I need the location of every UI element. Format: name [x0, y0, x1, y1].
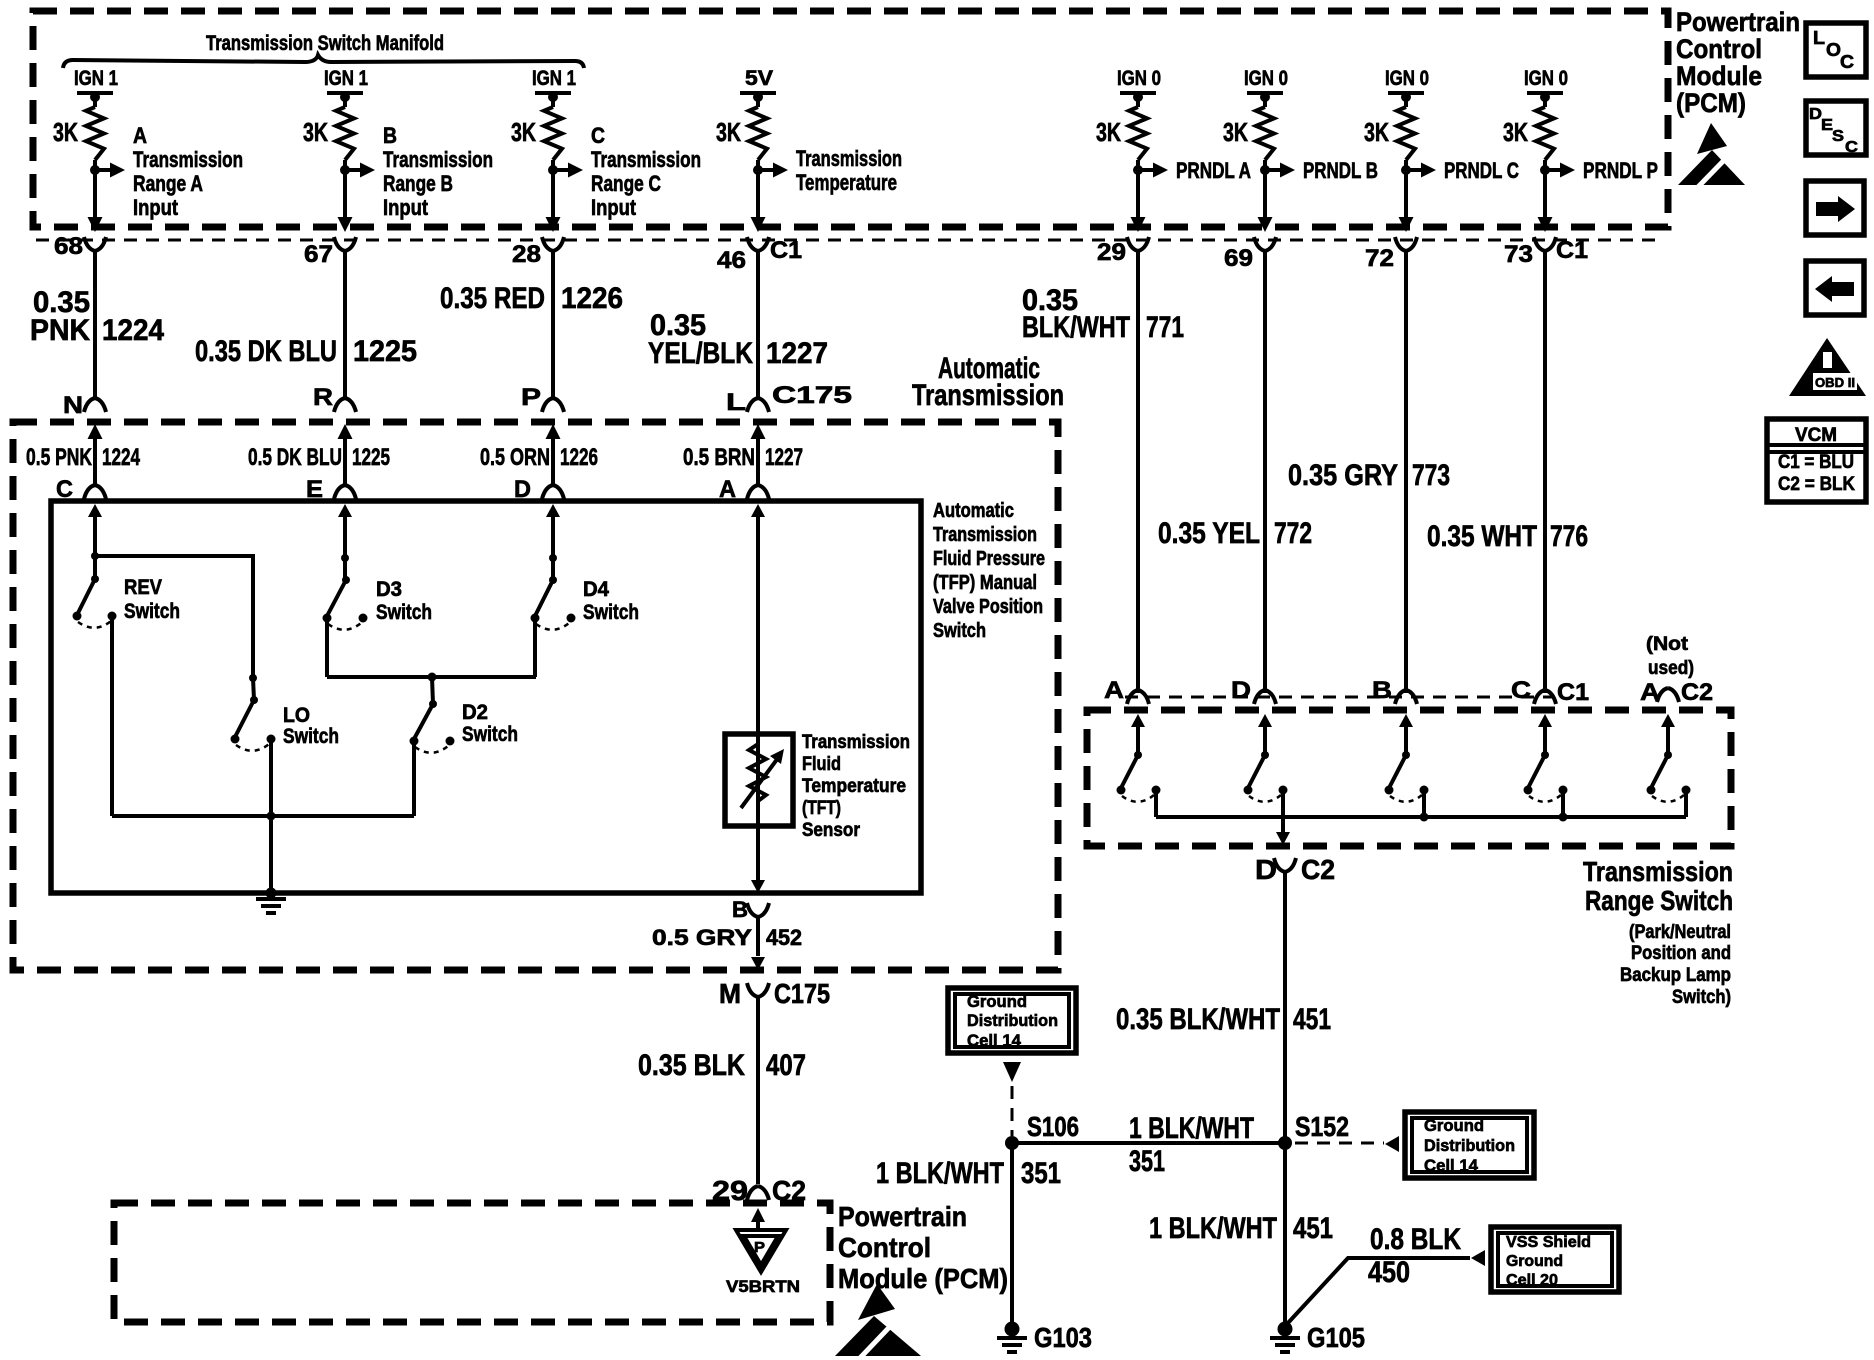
svg-text:Switch: Switch — [462, 723, 518, 746]
svg-text:3K: 3K — [1364, 117, 1389, 147]
Powertrain Control Module (PCM) top dashed box — [33, 11, 1668, 227]
svg-text:Automatic: Automatic — [933, 500, 1014, 522]
svg-text:72: 72 — [1365, 245, 1394, 272]
svg-text:3K: 3K — [1223, 117, 1248, 147]
pin 68 connector fork — [54, 233, 106, 260]
svg-text:P: P — [754, 1239, 765, 1256]
Powertrain Control Module (PCM) bottom dashed box — [114, 1203, 830, 1322]
svg-text:C: C — [1845, 139, 1858, 156]
resistor 3K, column 7 — [1364, 97, 1415, 160]
svg-text:PRNDL A: PRNDL A — [1176, 158, 1251, 183]
TFT sensor label — [802, 732, 910, 841]
range switch contact 5 — [1647, 714, 1691, 817]
svg-text:69: 69 — [1224, 245, 1253, 272]
svg-text:C175: C175 — [772, 382, 852, 409]
pin 28 connector fork — [512, 237, 564, 268]
svg-text:Input: Input — [383, 195, 429, 220]
splice S152 — [1278, 1111, 1349, 1150]
svg-text:1 BLK/WHT: 1 BLK/WHT — [1129, 1112, 1254, 1145]
svg-text:1224: 1224 — [102, 444, 140, 471]
Ground Distribution Cell 14 box (upper) — [948, 988, 1076, 1053]
node IGN 0 feed, column 5 — [1117, 67, 1161, 102]
range switch contact 1 — [1117, 714, 1161, 817]
svg-text:Switch): Switch) — [1672, 987, 1731, 1008]
svg-text:Cell 14: Cell 14 — [1424, 1156, 1479, 1175]
wire REV common to lower bus — [110, 616, 114, 816]
svg-text:Ground: Ground — [1424, 1116, 1484, 1135]
pin A C2 (Not used) — [1640, 634, 1713, 706]
svg-text:Range B: Range B — [383, 171, 453, 196]
wire 0.35 WHT 776 — [1427, 250, 1588, 693]
svg-text:IGN 1: IGN 1 — [324, 67, 368, 90]
signal name text, column 8 — [1583, 158, 1658, 183]
wire D contact down to connector — [1276, 790, 1290, 845]
PCM bottom label — [838, 1201, 1008, 1294]
wire D2 common down to lower bus — [412, 741, 416, 816]
svg-text:3K: 3K — [1503, 117, 1528, 147]
Automatic Transmission label — [912, 352, 1064, 412]
svg-text:A: A — [133, 123, 147, 148]
node IGN 1 feed, column 2 — [324, 67, 368, 102]
connector C175 pin R — [313, 384, 356, 412]
wire from pin C to REV switch — [88, 504, 102, 579]
connector C175 pin N — [63, 392, 106, 419]
resistor 3K, column 2 — [303, 97, 354, 160]
range switch connector line — [1125, 696, 1553, 699]
svg-text:IGN 1: IGN 1 — [74, 67, 118, 90]
svg-text:1225: 1225 — [353, 335, 417, 368]
D3 Switch — [323, 576, 433, 630]
wire 0.35 DK BLU 1225 — [195, 250, 417, 400]
svg-text:Cell 14: Cell 14 — [967, 1031, 1022, 1050]
svg-text:Temperature: Temperature — [802, 776, 906, 797]
svg-text:Input: Input — [591, 195, 637, 220]
wire 0.5 PNK 1224 into TFP pin C — [26, 424, 140, 503]
svg-text:351: 351 — [1129, 1145, 1165, 1178]
svg-text:B: B — [732, 897, 748, 922]
svg-text:5V: 5V — [745, 67, 773, 90]
TFT sensor box — [725, 734, 793, 826]
svg-text:Transmission Switch Manifold: Transmission Switch Manifold — [206, 32, 444, 55]
dashed wire S152 to ground distribution (right) — [1295, 1136, 1399, 1152]
svg-text:L: L — [1813, 28, 1825, 48]
svg-text:VSS Shield: VSS Shield — [1506, 1234, 1591, 1251]
svg-text:(Not: (Not — [1646, 634, 1689, 655]
connector 29 C2 to PCM — [712, 1175, 806, 1206]
svg-text:B: B — [383, 123, 397, 148]
svg-text:1225: 1225 — [352, 444, 390, 471]
wire from pin E to D3 switch — [338, 504, 352, 580]
svg-text:C1: C1 — [1557, 679, 1589, 706]
svg-text:Control: Control — [838, 1232, 931, 1263]
DESC icon box — [1806, 101, 1866, 156]
svg-text:28: 28 — [512, 241, 541, 268]
left arrow icon box — [1806, 261, 1864, 315]
svg-text:0.5 BRN: 0.5 BRN — [683, 444, 755, 471]
wire 0.35 BLK/WHT 451 — [1116, 1003, 1331, 1036]
wire 0.5 DK BLU 1225 into TFP pin E — [248, 424, 390, 503]
wire 0.35 BLK 407 — [638, 1049, 806, 1082]
svg-text:C175: C175 — [774, 978, 830, 1009]
wire LO common down to case ground — [269, 739, 273, 893]
svg-text:YEL/BLK: YEL/BLK — [648, 337, 753, 370]
svg-text:LO: LO — [283, 704, 310, 727]
range switch contact 2 — [1244, 714, 1288, 817]
wire 0.5 ORN 1226 into TFP pin D — [480, 424, 598, 503]
svg-text:772: 772 — [1274, 517, 1312, 550]
svg-text:C2: C2 — [1681, 679, 1713, 706]
svg-text:IGN 0: IGN 0 — [1385, 67, 1429, 90]
svg-text:C1 = BLU: C1 = BLU — [1778, 452, 1854, 473]
pin 67 connector fork — [304, 237, 356, 268]
svg-text:407: 407 — [766, 1049, 806, 1082]
svg-text:IGN 0: IGN 0 — [1244, 67, 1288, 90]
svg-text:(TFT): (TFT) — [802, 798, 841, 819]
range switch common bus — [1156, 813, 1686, 822]
svg-text:Powertrain: Powertrain — [1676, 7, 1800, 37]
range switch pin C — [1511, 677, 1556, 704]
svg-text:Fluid Pressure: Fluid Pressure — [933, 548, 1045, 570]
REV Switch — [73, 575, 181, 628]
svg-text:D2: D2 — [462, 701, 488, 724]
VSS Shield Ground Cell 20 box — [1491, 1227, 1619, 1292]
signal name text, column 1 — [133, 123, 243, 220]
svg-text:G105: G105 — [1307, 1322, 1365, 1353]
connector D C2 — [1255, 854, 1335, 1143]
svg-text:Range Switch: Range Switch — [1585, 885, 1733, 916]
Transmission Range Switch dashed box — [1087, 710, 1731, 846]
svg-text:Sensor: Sensor — [802, 820, 861, 841]
svg-text:N: N — [63, 392, 83, 419]
svg-text:452: 452 — [766, 925, 802, 950]
wire 0.35 GRY 773 — [1288, 250, 1450, 693]
junction dot on lower bus — [267, 812, 276, 821]
svg-text:3K: 3K — [716, 117, 741, 147]
svg-text:BLK/WHT: BLK/WHT — [1022, 311, 1130, 344]
wire 0.5 GRY 452 — [652, 925, 802, 970]
svg-text:Switch: Switch — [124, 600, 180, 623]
svg-text:Cell 20: Cell 20 — [1506, 1272, 1558, 1289]
svg-text:Switch: Switch — [933, 620, 986, 642]
pin 69 connector fork — [1224, 237, 1276, 272]
pin 46 connector fork — [717, 237, 769, 274]
svg-text:351: 351 — [1021, 1157, 1061, 1190]
svg-text:Temperature: Temperature — [796, 170, 897, 195]
svg-text:Control: Control — [1676, 34, 1762, 64]
range switch pin A — [1104, 677, 1149, 704]
svg-text:C1: C1 — [770, 237, 802, 264]
wire and junction with signal tap, column 6 — [1258, 160, 1296, 232]
svg-text:Switch: Switch — [583, 601, 639, 624]
svg-text:C2 = BLK: C2 = BLK — [1778, 474, 1855, 495]
D4 Switch — [531, 576, 640, 630]
svg-text:3K: 3K — [303, 117, 328, 147]
svg-text:(Park/Neutral: (Park/Neutral — [1629, 922, 1731, 943]
svg-text:S152: S152 — [1295, 1111, 1349, 1142]
svg-text:0.35 BLK/WHT: 0.35 BLK/WHT — [1116, 1003, 1280, 1036]
wire 0.35 PNK 1224 — [30, 250, 164, 400]
svg-text:1227: 1227 — [765, 444, 803, 471]
svg-text:IGN 0: IGN 0 — [1524, 67, 1568, 90]
svg-text:Valve Position: Valve Position — [933, 596, 1043, 618]
wire from pin A through TFT sensor — [751, 504, 765, 893]
splice S106 — [1005, 1111, 1079, 1150]
signal name text, column 4 — [796, 146, 902, 195]
svg-text:OBD II: OBD II — [1815, 375, 1855, 390]
svg-text:C2: C2 — [1301, 854, 1335, 885]
node 5V feed, column 4 — [740, 67, 776, 102]
ground G105 — [1270, 1322, 1365, 1354]
svg-text:3K: 3K — [53, 117, 78, 147]
svg-text:1 BLK/WHT: 1 BLK/WHT — [876, 1157, 1004, 1190]
svg-text:PRNDL P: PRNDL P — [1583, 158, 1658, 183]
range switch pin B — [1372, 677, 1417, 704]
VCM connector legend box — [1767, 419, 1866, 502]
range switch contact 4 — [1524, 714, 1568, 817]
wire 1 BLK/WHT 351 (S106 to G103) — [876, 1143, 1061, 1329]
svg-text:Powertrain: Powertrain — [838, 1201, 967, 1232]
Ground Distribution Cell 14 box (right) — [1405, 1112, 1534, 1178]
range switch contact 3 — [1385, 714, 1429, 817]
svg-text:Transmission: Transmission — [383, 147, 493, 172]
svg-text:Transmission: Transmission — [1583, 856, 1733, 887]
svg-text:Fluid: Fluid — [802, 754, 841, 775]
resistor 3K, column 1 — [53, 97, 104, 160]
resistor 3K, column 6 — [1223, 97, 1274, 160]
svg-text:1224: 1224 — [102, 314, 164, 347]
signal name text, column 7 — [1444, 158, 1519, 183]
svg-text:(PCM): (PCM) — [1676, 88, 1746, 118]
wire and junction with signal tap, column 3 — [546, 160, 584, 232]
svg-text:0.5 PNK: 0.5 PNK — [26, 444, 92, 471]
wire and junction with signal tap, column 4 — [751, 160, 789, 232]
wire D3 common to D2 feed bus — [325, 618, 329, 677]
svg-text:Transmission: Transmission — [591, 147, 701, 172]
svg-text:Input: Input — [133, 195, 179, 220]
svg-text:C1: C1 — [1556, 237, 1588, 264]
svg-text:Transmission: Transmission — [933, 524, 1037, 546]
node IGN 0 feed, column 7 — [1385, 67, 1429, 102]
wire and junction with signal tap, column 8 — [1538, 160, 1576, 232]
resistor 3K, column 5 — [1096, 97, 1147, 160]
svg-text:S: S — [1832, 128, 1844, 145]
svg-text:0.35 YEL: 0.35 YEL — [1158, 517, 1260, 550]
svg-text:Distribution: Distribution — [1424, 1136, 1515, 1155]
svg-text:G103: G103 — [1034, 1322, 1092, 1353]
svg-text:Transmission: Transmission — [133, 147, 243, 172]
wire 0.35 YEL/BLK 1227 — [648, 250, 828, 400]
svg-text:Module (PCM): Module (PCM) — [838, 1263, 1008, 1294]
arrow from ground distribution to S106 — [1003, 1062, 1021, 1136]
svg-text:451: 451 — [1293, 1003, 1331, 1036]
signal name text, column 5 — [1176, 158, 1251, 183]
svg-text:V5BRTN: V5BRTN — [726, 1277, 800, 1296]
svg-text:450: 450 — [1368, 1256, 1410, 1289]
svg-text:VCM: VCM — [1795, 425, 1837, 446]
svg-text:A: A — [1104, 677, 1124, 704]
D2 Switch — [410, 673, 519, 753]
svg-text:D4: D4 — [583, 578, 609, 601]
svg-text:Switch: Switch — [283, 725, 339, 748]
node IGN 1 feed, column 1 — [74, 67, 118, 102]
Transmission Range Switch label — [1583, 856, 1733, 1008]
wire 0.8 BLK 450 to VSS shield ground — [1287, 1223, 1485, 1324]
svg-text:PRNDL B: PRNDL B — [1303, 158, 1378, 183]
svg-text:Transmission: Transmission — [796, 146, 902, 171]
svg-text:0.35 RED: 0.35 RED — [440, 282, 545, 315]
signal name text, column 3 — [591, 123, 701, 220]
svg-text:(TFP) Manual: (TFP) Manual — [933, 572, 1037, 594]
svg-text:1 BLK/WHT: 1 BLK/WHT — [1149, 1212, 1277, 1245]
LOC icon box — [1806, 23, 1866, 77]
svg-text:29: 29 — [1097, 239, 1126, 266]
svg-text:0.5 GRY: 0.5 GRY — [652, 925, 752, 950]
svg-text:Transmission: Transmission — [802, 732, 910, 753]
svg-text:67: 67 — [304, 241, 333, 268]
svg-text:S106: S106 — [1027, 1111, 1079, 1142]
svg-text:P: P — [521, 384, 541, 411]
wire 0.35 YEL 772 — [1158, 250, 1312, 693]
svg-text:0.35 GRY: 0.35 GRY — [1288, 459, 1398, 492]
svg-text:C: C — [1840, 52, 1854, 72]
case ground symbol — [256, 888, 286, 914]
svg-text:Switch: Switch — [376, 601, 432, 624]
svg-text:Ground: Ground — [967, 992, 1027, 1011]
svg-text:1226: 1226 — [560, 444, 598, 471]
svg-text:0.5 DK BLU: 0.5 DK BLU — [248, 444, 342, 471]
svg-text:3K: 3K — [511, 117, 536, 147]
wire 0.5 BRN 1227 into TFP pin A — [683, 424, 803, 503]
svg-text:1227: 1227 — [766, 337, 828, 370]
svg-text:Position and: Position and — [1631, 943, 1731, 964]
svg-text:PRNDL C: PRNDL C — [1444, 158, 1519, 183]
D4 switch feed wire — [546, 504, 560, 580]
svg-text:D3: D3 — [376, 578, 402, 601]
D2 feed bus wire — [327, 675, 536, 679]
svg-text:0.35 DK BLU: 0.35 DK BLU — [195, 335, 337, 368]
svg-text:R: R — [313, 384, 333, 411]
wire from REV junction to LO switch — [95, 556, 253, 678]
svg-text:Range C: Range C — [591, 171, 661, 196]
signal name text, column 2 — [383, 123, 493, 220]
manifold brace — [63, 55, 584, 68]
V5BRTN 5V return symbol — [726, 1208, 800, 1296]
svg-text:Transmission: Transmission — [912, 379, 1064, 412]
node IGN 0 feed, column 8 — [1524, 67, 1568, 102]
svg-text:46: 46 — [717, 247, 746, 274]
wire D4 common to D2 feed bus — [533, 618, 537, 677]
svg-text:773: 773 — [1412, 459, 1450, 492]
svg-text:used): used) — [1648, 658, 1694, 679]
svg-text:C: C — [1511, 677, 1531, 704]
svg-text:Ground: Ground — [1506, 1253, 1563, 1270]
OBD II triangle icon — [1789, 338, 1866, 396]
signal name text, column 6 — [1303, 158, 1378, 183]
wire and junction with signal tap, column 5 — [1131, 160, 1169, 232]
wire 1 BLK/WHT 451 (S152 to G105) — [1149, 1143, 1333, 1329]
resistor 3K, column 3 — [511, 97, 562, 160]
pin 73 connector fork — [1504, 237, 1556, 268]
LO Switch — [231, 674, 340, 751]
svg-text:451: 451 — [1293, 1212, 1333, 1245]
TFP manual valve position switch box — [51, 501, 921, 893]
svg-text:D: D — [1231, 677, 1251, 704]
Automatic Transmission dashed box — [13, 422, 1058, 970]
range switch pin D — [1231, 677, 1276, 704]
svg-text:1226: 1226 — [561, 282, 623, 315]
wire and junction with signal tap, column 1 — [88, 160, 126, 232]
pin 29 connector fork — [1097, 237, 1149, 266]
node IGN 0 feed, column 6 — [1244, 67, 1288, 102]
ESD sensitive-device symbol (top) — [1678, 123, 1745, 187]
svg-text:0.35 WHT: 0.35 WHT — [1427, 520, 1537, 553]
connector pin B below TFP box — [732, 897, 769, 956]
svg-text:Range A: Range A — [133, 171, 203, 196]
svg-text:3K: 3K — [1096, 117, 1121, 147]
wire and junction with signal tap, column 7 — [1399, 160, 1437, 232]
svg-text:C: C — [591, 123, 605, 148]
svg-text:M: M — [719, 978, 741, 1009]
wire 1 BLK/WHT 351 (S106 to S152) — [1012, 1112, 1285, 1178]
resistor 3K, column 8 — [1503, 97, 1554, 160]
wire and junction with signal tap, column 2 — [338, 160, 376, 232]
wire 0.35 BLK/WHT 771 — [1022, 250, 1184, 693]
svg-text:776: 776 — [1550, 520, 1588, 553]
svg-text:73: 73 — [1504, 241, 1533, 268]
pin 72 connector fork — [1365, 237, 1417, 272]
ground G103 — [997, 1322, 1092, 1354]
right arrow icon box — [1806, 181, 1864, 235]
TFT thermistor symbol — [741, 744, 784, 808]
wire 0.35 RED 1226 — [440, 250, 623, 400]
svg-text:IGN 0: IGN 0 — [1117, 67, 1161, 90]
connector C175 pin L — [726, 389, 769, 416]
svg-text:0.8 BLK: 0.8 BLK — [1370, 1223, 1461, 1256]
PCM connector C1 line — [36, 239, 1660, 242]
svg-text:Module: Module — [1676, 61, 1762, 91]
TFP label text block — [933, 500, 1045, 642]
resistor 3K, column 4 — [716, 97, 767, 160]
svg-text:O: O — [1826, 40, 1841, 60]
svg-text:68: 68 — [54, 233, 83, 260]
lower bus wire (REV/LO/D2 commons) — [112, 814, 414, 818]
svg-text:0.5 ORN: 0.5 ORN — [480, 444, 550, 471]
svg-text:0.35 BLK: 0.35 BLK — [638, 1049, 745, 1082]
svg-text:IGN 1: IGN 1 — [532, 67, 576, 90]
svg-text:L: L — [726, 389, 746, 416]
svg-text:Backup Lamp: Backup Lamp — [1620, 965, 1731, 986]
connector C175 pin P — [521, 384, 564, 412]
ESD sensitive-device symbol (bottom) — [835, 1284, 921, 1358]
svg-text:PNK: PNK — [30, 314, 90, 347]
svg-text:B: B — [1372, 677, 1392, 704]
svg-text:REV: REV — [124, 576, 162, 599]
svg-text:Distribution: Distribution — [967, 1011, 1058, 1030]
node IGN 1 feed, column 3 — [532, 67, 576, 102]
svg-text:771: 771 — [1146, 311, 1184, 344]
connector M C175 — [719, 978, 830, 1184]
PCM label — [1676, 7, 1800, 118]
